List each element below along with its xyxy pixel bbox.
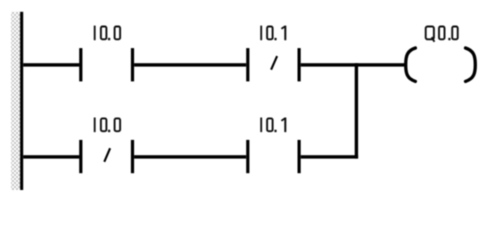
rung2 wire: I0.1 to branch junction [301, 155, 358, 158]
rung2 wire: I0.0 to I0.1 [134, 155, 246, 158]
branch vertical wire to rung2 [355, 63, 358, 158]
rung1 contact I0.1 right bar [298, 48, 301, 81]
rung2 label I0.1 [260, 118, 286, 133]
rung1 contact I0.0 right bar [131, 48, 134, 81]
rung1 wire: I0.1 to coil [301, 63, 406, 66]
left power rail [20, 12, 23, 190]
rung1 wire: I0.0 to I0.1 [134, 63, 246, 66]
coil label Q0.0 [426, 27, 458, 42]
rung2 contact I0.0 NC slash [104, 148, 110, 162]
coil Q0.0 left paren [406, 48, 416, 81]
rung2 contact I0.1 left bar [246, 140, 249, 173]
rung2 label I0.0 [94, 118, 120, 133]
rung2 wire: rail to contact I0.0 [23, 155, 79, 158]
rung2 contact I0.0 left bar [79, 140, 82, 173]
coil Q0.0 right paren [466, 48, 476, 81]
rung1 label I0.1 [260, 26, 286, 41]
left margin dithered strip [11, 12, 20, 190]
rung1 label I0.0 [94, 26, 120, 41]
rung1 contact I0.1 left bar [246, 48, 249, 81]
rung2 contact I0.0 right bar [131, 140, 134, 173]
rung2 contact I0.1 right bar [298, 140, 301, 173]
rung1 wire: rail to contact I0.0 [23, 63, 79, 66]
rung1 contact I0.0 left bar [79, 48, 82, 81]
rung1 contact I0.1 NC slash [271, 56, 277, 70]
